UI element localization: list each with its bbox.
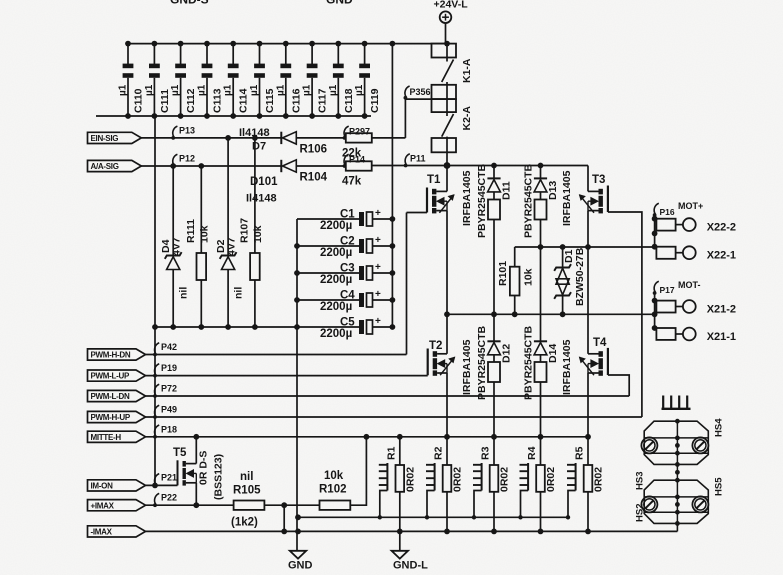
svg-text:PBYR2545CTB: PBYR2545CTB	[476, 325, 488, 400]
terminal X22-1	[656, 247, 675, 259]
junction D1 on rail B	[560, 311, 566, 317]
svg-text:D12: D12	[501, 344, 513, 363]
resistor R2 0R02 shunt	[446, 437, 448, 465]
svg-text:P18: P18	[161, 424, 177, 434]
wire T4 gate to PWM-L-DN	[608, 375, 629, 396]
svg-text:0R02: 0R02	[593, 467, 605, 492]
junction GND-S at zener bus	[152, 324, 158, 330]
svg-text:10k: 10k	[523, 268, 535, 286]
flag PWM-L-UP	[88, 370, 146, 381]
svg-text:C2: C2	[340, 236, 355, 248]
test point P49	[155, 405, 160, 416]
wire D7 to R106	[296, 137, 346, 139]
svg-text:µ1: µ1	[328, 84, 339, 96]
test point P14	[344, 154, 349, 165]
terminal X22-2	[656, 219, 675, 231]
svg-text:µ1: µ1	[197, 84, 208, 96]
wire T4 source to shunt bus	[587, 373, 589, 437]
wire cap-bank bottom rail (GND-S)	[96, 115, 371, 117]
wire T1 drain	[446, 166, 448, 192]
wire +IMAX row	[146, 504, 234, 506]
svg-text:X21-2: X21-2	[707, 304, 736, 316]
svg-text:C112: C112	[185, 88, 197, 113]
svg-text:P42: P42	[161, 342, 177, 352]
svg-text:C110: C110	[133, 88, 145, 113]
terminal X21-2	[656, 301, 675, 313]
svg-text:MOT-: MOT-	[678, 280, 701, 290]
svg-text:47k: 47k	[342, 176, 362, 188]
flag IM-ON	[88, 480, 146, 491]
flag PWM-L-DN	[88, 390, 146, 401]
svg-text:2200µ: 2200µ	[320, 328, 352, 340]
svg-text:PBYR2545CTB: PBYR2545CTB	[523, 163, 535, 238]
svg-text:PBYR2545CTB: PBYR2545CTB	[476, 163, 488, 238]
wire T2 source to shunt bus	[446, 373, 448, 437]
svg-text:P22: P22	[161, 493, 177, 503]
svg-text:4V7: 4V7	[225, 237, 237, 256]
svg-text:µ1: µ1	[118, 84, 129, 96]
svg-text:P17: P17	[660, 285, 675, 295]
svg-text:EIN-SIG: EIN-SIG	[91, 134, 119, 143]
svg-text:Il4148: Il4148	[246, 193, 277, 205]
capacitor C115	[259, 44, 261, 64]
junction GND-S vertical on IM-ON	[152, 483, 158, 489]
capacitor C117	[311, 44, 313, 64]
junction R111 on bus	[198, 324, 204, 330]
svg-text:MITTE-H: MITTE-H	[91, 433, 122, 442]
capacitor C2 2200u	[297, 245, 359, 247]
svg-text:GND-L: GND-L	[393, 560, 428, 572]
wire T5 source to +IMAX row	[195, 483, 197, 505]
svg-text:µ1: µ1	[275, 84, 286, 96]
test point P16	[654, 203, 659, 214]
svg-text:C119: C119	[369, 88, 381, 113]
wire T3 source to rail A	[587, 211, 589, 247]
wire A/A-SIG row	[141, 165, 280, 167]
svg-text:+: +	[375, 208, 381, 219]
svg-text:+: +	[375, 235, 381, 246]
junction R107 on bus	[252, 324, 258, 330]
wire PWM-L-DN row to T4 gate	[146, 395, 630, 397]
capacitor C112	[180, 44, 182, 64]
wire PWM-L-UP row to T2 gate	[146, 375, 428, 377]
svg-text:C4: C4	[340, 290, 355, 302]
diode D7 Il4148	[280, 132, 282, 144]
svg-text:C114: C114	[238, 88, 250, 113]
svg-text:PWM-H-UP: PWM-H-UP	[91, 413, 131, 422]
svg-text:R105: R105	[233, 485, 261, 497]
svg-text:T5: T5	[173, 447, 187, 459]
svg-text:IRFBA1405: IRFBA1405	[561, 339, 573, 395]
resistor R1 0R02 shunt	[399, 437, 401, 465]
wire R106 to P356	[372, 137, 406, 139]
svg-text:T3: T3	[592, 174, 605, 186]
test point P72	[155, 384, 160, 395]
resistor R111 10k	[197, 253, 207, 280]
capacitor C116	[285, 44, 287, 64]
junction +24 at D11	[491, 163, 497, 169]
svg-text:HS3: HS3	[635, 472, 646, 490]
svg-text:R5: R5	[574, 446, 586, 460]
wire EIN-SIG row	[141, 137, 280, 139]
svg-text:+24V-L: +24V-L	[434, 0, 469, 11]
svg-text:C115: C115	[264, 88, 276, 113]
svg-text:A/A-SIG: A/A-SIG	[91, 162, 119, 171]
svg-text:0R D-S: 0R D-S	[198, 451, 210, 485]
resistor R3 0R02 shunt	[493, 437, 495, 465]
svg-text:0R02: 0R02	[452, 467, 464, 492]
junction R111 on A/A-SIG	[198, 163, 204, 169]
svg-text:2200µ: 2200µ	[320, 274, 352, 286]
wire T1 gate drop from PWM-H-DN	[406, 213, 408, 355]
svg-text:nil: nil	[232, 287, 244, 299]
svg-text:P19: P19	[161, 363, 177, 373]
junction +24 at T1 column	[444, 162, 451, 169]
wire A/A-SIG to D4	[172, 166, 174, 256]
wire PWM-H-DN row to T1 gate	[146, 354, 407, 356]
wire PWM-H-UP row to T3 gate	[146, 416, 642, 418]
junction R107 on EIN-SIG	[252, 135, 258, 141]
relay contact K1-A	[446, 44, 448, 62]
junction D13 on rail A	[538, 244, 544, 250]
svg-text:T4: T4	[593, 337, 607, 349]
svg-text:0R02: 0R02	[499, 467, 511, 492]
capacitor C113	[206, 44, 208, 64]
svg-text:T1: T1	[427, 174, 441, 186]
svg-text:R102: R102	[319, 484, 347, 496]
terminal X21-1	[656, 328, 675, 340]
wire rail A (MOT+)	[515, 246, 655, 248]
svg-text:HS4: HS4	[714, 418, 725, 437]
wire T4 drain from rail A	[587, 247, 589, 354]
junction R101 on rail B	[512, 311, 518, 317]
wire T5 drain to MITTE-H	[195, 437, 197, 464]
zener D2 4V7	[220, 252, 237, 259]
capacitor C118	[337, 44, 339, 64]
wire T3 gate to PWM-H-UP	[608, 212, 642, 417]
test point P19	[155, 364, 160, 375]
svg-text:IRFBA1405: IRFBA1405	[461, 339, 473, 395]
capacitor C5 2200u	[297, 326, 359, 328]
svg-text:PWM-H-DN: PWM-H-DN	[91, 351, 131, 360]
resistor R5 0R02 shunt	[587, 437, 589, 465]
junction D11 on rail B	[491, 311, 497, 317]
svg-text:R107: R107	[239, 218, 251, 243]
svg-text:X22-2: X22-2	[707, 222, 736, 234]
svg-text:D13: D13	[547, 181, 559, 200]
wire GND-S vertical from C111	[154, 116, 156, 485]
svg-text:GND-S: GND-S	[170, 0, 209, 7]
svg-text:10k: 10k	[324, 470, 344, 482]
junction +24 at D13	[538, 163, 544, 169]
flag +IMAX	[88, 500, 146, 511]
capacitor C4 2200u	[297, 299, 359, 301]
wire R102 up to MITTE-H bus	[350, 437, 366, 505]
heatsink HS2 HS3 HS5 assembly	[644, 480, 708, 523]
svg-text:Il4148: Il4148	[239, 127, 270, 139]
svg-text:nil: nil	[240, 471, 253, 483]
svg-text:nil: nil	[178, 287, 190, 299]
junction X22-1 rail A	[652, 244, 658, 250]
svg-text:R2: R2	[433, 446, 445, 460]
svg-text:PBYR2545CTB: PBYR2545CTB	[523, 325, 535, 400]
flag EIN-SIG	[88, 132, 142, 143]
junction GND vertical on -IMAX	[295, 529, 301, 535]
svg-text:IRFBA1405: IRFBA1405	[461, 170, 473, 226]
svg-text:µ1: µ1	[144, 84, 155, 96]
svg-text:2200µ: 2200µ	[320, 247, 352, 259]
svg-text:R106: R106	[300, 144, 328, 156]
wire IM-ON row to T5 gate	[146, 484, 178, 486]
wire GND vertical	[296, 327, 298, 551]
resistor R102 10k	[320, 501, 351, 510]
resistor R101 10k	[514, 247, 516, 267]
wire EIN-SIG to R107	[254, 138, 256, 253]
junction X21-2 rail B	[652, 311, 658, 317]
svg-text:C118: C118	[343, 88, 355, 113]
test point P12	[173, 154, 178, 165]
wire GND-L vertical	[399, 531, 401, 551]
capacitor C119	[364, 44, 366, 64]
svg-text:µ1: µ1	[249, 84, 260, 96]
svg-text:µ1: µ1	[354, 84, 365, 96]
wire P356 to R106	[404, 98, 406, 138]
svg-text:D11: D11	[501, 181, 513, 200]
junction D2 on EIN-SIG	[225, 135, 231, 141]
svg-text:0R02: 0R02	[404, 467, 416, 492]
svg-text:(1k2): (1k2)	[231, 517, 258, 529]
diode D14 PBYR2545CTB	[540, 247, 542, 341]
svg-text:P72: P72	[161, 384, 177, 394]
svg-text:X21-1: X21-1	[707, 331, 736, 343]
svg-text:K2-A: K2-A	[461, 106, 473, 131]
svg-text:T2: T2	[429, 340, 442, 352]
capacitor C3 2200u	[297, 272, 359, 274]
svg-text:P21: P21	[161, 473, 177, 483]
node +24V-L terminal	[440, 11, 452, 23]
svg-text:P297: P297	[349, 127, 370, 137]
heatsink fins symbol	[662, 408, 691, 410]
test point P297	[344, 126, 349, 137]
svg-text:GND: GND	[326, 0, 353, 7]
svg-text:GND: GND	[288, 560, 313, 572]
diode D13 PBYR2545CTB	[540, 166, 542, 179]
svg-text:R3: R3	[480, 446, 492, 460]
wire EIN-SIG to D2	[227, 138, 229, 256]
test point P356	[405, 86, 410, 97]
junction X21-2	[652, 298, 658, 304]
svg-text:C111: C111	[159, 89, 171, 113]
svg-text:PWM-L-UP: PWM-L-UP	[91, 372, 130, 381]
test point P21	[155, 474, 160, 485]
wire T3 drain from +24 rail	[587, 166, 589, 192]
junction link to -IMAX	[281, 502, 287, 508]
wire link +IMAX to -IMAX	[283, 505, 285, 531]
wire zener bottom bus	[155, 326, 297, 328]
wire sense line	[298, 516, 569, 518]
resistor R107 10k	[250, 253, 260, 280]
wire X21 bus	[654, 292, 656, 329]
capacitor C1 2200u	[297, 218, 359, 220]
relay contact K2-A	[446, 82, 448, 116]
svg-text:+: +	[375, 262, 381, 273]
wire T1 source to rail B	[446, 211, 448, 315]
svg-text:P12: P12	[179, 154, 195, 164]
svg-text:R111: R111	[185, 219, 197, 243]
wire -IMAX bottom bus	[146, 530, 678, 532]
wire +24V-L to K1-A	[445, 23, 447, 44]
junction D1 on rail A	[560, 244, 566, 250]
wire T2 drain from rail B	[446, 314, 448, 354]
flag PWM-H-DN	[88, 349, 146, 360]
svg-text:R1: R1	[385, 446, 397, 460]
svg-text:C3: C3	[340, 263, 355, 275]
svg-text:µ1: µ1	[302, 84, 313, 96]
svg-text:C5: C5	[340, 317, 355, 329]
svg-text:HS5: HS5	[714, 477, 725, 496]
test point P11	[405, 154, 410, 165]
svg-text:10k: 10k	[199, 225, 211, 243]
wire R105 to R102	[264, 504, 319, 506]
svg-text:0R02: 0R02	[545, 467, 557, 492]
svg-text:P356: P356	[410, 87, 431, 97]
svg-text:R4: R4	[526, 446, 538, 460]
svg-text:+: +	[375, 289, 381, 300]
svg-text:IM-ON: IM-ON	[91, 482, 114, 491]
junction X21-1	[652, 325, 658, 331]
flag A/A-SIG	[88, 160, 142, 171]
svg-text:-IMAX: -IMAX	[91, 528, 113, 537]
svg-text:BZW50-27B: BZW50-27B	[574, 247, 586, 306]
test point P18	[155, 425, 160, 436]
svg-text:P11: P11	[410, 154, 426, 164]
svg-text:C116: C116	[290, 88, 302, 113]
junction T5 source	[193, 502, 199, 508]
svg-text:2200µ: 2200µ	[320, 301, 352, 313]
flag -IMAX	[88, 526, 146, 537]
svg-text:µ1: µ1	[170, 84, 181, 96]
svg-text:R104: R104	[300, 172, 328, 184]
svg-text:2200µ: 2200µ	[320, 220, 352, 232]
test point P17	[654, 281, 659, 292]
svg-text:+: +	[375, 316, 381, 327]
capacitor C110	[127, 44, 129, 64]
wire cap-bank top rail	[128, 43, 447, 45]
wire electrolytic left bus	[296, 219, 298, 327]
wire D101 to R104	[296, 165, 346, 167]
wire P356 to K2-A	[405, 98, 431, 100]
svg-text:D14: D14	[547, 344, 559, 363]
junction T3 column on rail A	[585, 244, 591, 250]
svg-text:K1-A: K1-A	[461, 58, 473, 83]
svg-text:X22-1: X22-1	[707, 250, 736, 262]
resistor R104 47k	[346, 161, 372, 170]
junction X22-2	[652, 216, 658, 222]
svg-text:P13: P13	[179, 126, 195, 136]
svg-text:P49: P49	[161, 405, 177, 415]
svg-text:IRFBA1405: IRFBA1405	[561, 170, 573, 226]
svg-text:+IMAX: +IMAX	[91, 501, 115, 510]
svg-text:HS2: HS2	[635, 504, 646, 522]
capacitor C111	[153, 44, 155, 64]
wire MITTE-H shunt bus	[146, 436, 591, 438]
diode D101 Il4148	[280, 160, 282, 172]
svg-text:P16: P16	[660, 207, 675, 217]
wire heatsink link	[676, 464, 678, 480]
wire heatsink to bottom bus	[676, 523, 678, 531]
flag MITTE-H	[88, 431, 146, 442]
zener D4 4V7	[165, 252, 182, 259]
junction T1 column on rail B	[444, 311, 450, 317]
resistor R105 nil (1k2)	[234, 501, 265, 510]
svg-text:C113: C113	[212, 88, 224, 113]
svg-text:(BSS123): (BSS123)	[213, 454, 225, 500]
heatsink HS4 assembly	[644, 421, 708, 464]
svg-text:C1: C1	[340, 209, 355, 221]
wire +24 rail from R104 to T3	[372, 165, 588, 167]
wire X22 bus	[654, 214, 656, 247]
junction D2 on bus	[225, 324, 231, 330]
ground GND-L	[392, 551, 408, 559]
diode D12 PBYR2545CTB	[493, 314, 495, 341]
test point P22	[155, 493, 160, 504]
svg-text:R101: R101	[497, 261, 509, 286]
svg-text:MOT+: MOT+	[678, 201, 703, 211]
capacitor C114	[232, 44, 234, 64]
test point P42	[155, 343, 160, 354]
svg-text:µ1: µ1	[223, 84, 234, 96]
diode D11 PBYR2545CTB	[493, 166, 495, 179]
resistor R4 0R02 shunt	[540, 437, 542, 465]
ground GND	[290, 551, 306, 559]
junction D4 on bus	[170, 324, 176, 330]
test point P13	[173, 126, 178, 137]
svg-text:10k: 10k	[252, 225, 264, 243]
svg-text:P14: P14	[349, 155, 365, 165]
wire A/A-SIG to R111	[200, 166, 202, 253]
wire rail B (MOT-)	[447, 313, 655, 315]
diode D1 BZW50-27B	[562, 247, 564, 268]
svg-text:C117: C117	[317, 88, 329, 113]
resistor R106 22k	[346, 133, 372, 142]
svg-text:PWM-L-DN: PWM-L-DN	[91, 392, 130, 401]
wire electrolytic right bus	[391, 44, 393, 327]
svg-text:4V7: 4V7	[171, 237, 183, 256]
flag PWM-H-UP	[88, 411, 146, 422]
